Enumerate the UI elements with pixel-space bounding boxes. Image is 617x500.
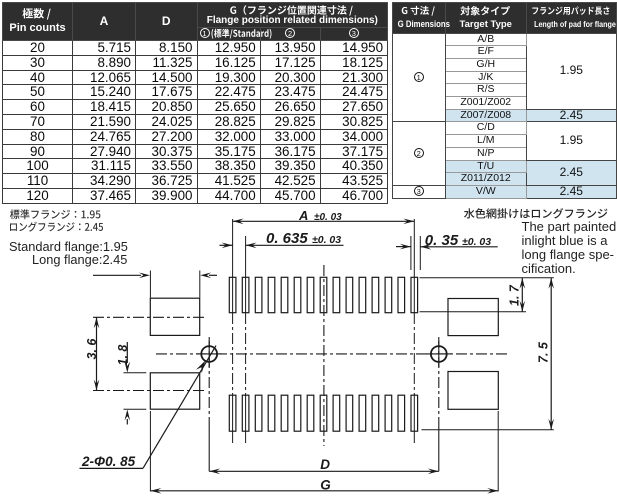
svg-text:D: D — [320, 457, 330, 472]
svg-text:±0. 03: ±0. 03 — [462, 236, 491, 248]
svg-text:1. 8: 1. 8 — [116, 345, 130, 366]
svg-text:0. 635: 0. 635 — [266, 230, 308, 247]
svg-text:3. 6: 3. 6 — [85, 338, 99, 360]
svg-text:2-Φ0. 85: 2-Φ0. 85 — [81, 454, 136, 469]
svg-text:±0. 03: ±0. 03 — [314, 212, 342, 223]
svg-text:0. 35: 0. 35 — [425, 232, 459, 249]
svg-text:A: A — [298, 208, 308, 223]
svg-text:7. 5: 7. 5 — [537, 341, 551, 363]
svg-text:G: G — [320, 478, 331, 493]
svg-text:±0. 03: ±0. 03 — [312, 234, 341, 246]
svg-text:1. 7: 1. 7 — [508, 284, 522, 306]
